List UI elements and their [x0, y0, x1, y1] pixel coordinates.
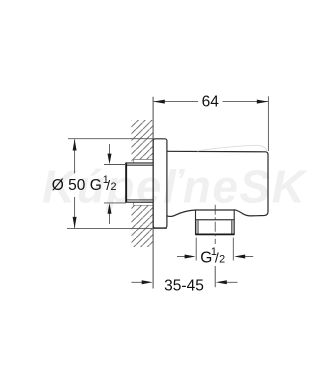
wall pipe-hole outline — [133, 160, 153, 206]
dimension G1/2 (bottom outlet) — [177, 238, 253, 267]
body outline — [167, 151, 268, 216]
centre axis of outlet (dash-dot) — [214, 205, 216, 244]
inlet thread G1/2 (in wall) — [126, 163, 153, 202]
dimension G1/2 (left inlet) — [90, 144, 126, 224]
svg-text:KúpeľneSK: KúpeľneSK — [42, 161, 308, 213]
dimension 35-45 (bottom) — [131, 277, 237, 294]
dimension 64 (top) — [153, 94, 268, 151]
wall face line (also extension line for 64 and 35-45) — [152, 97, 154, 289]
svg-text:35-45: 35-45 — [164, 277, 204, 294]
dimension Ø50 (left) — [52, 139, 167, 229]
svg-text:2: 2 — [219, 253, 225, 265]
faint top-surface edge of body — [197, 145, 267, 151]
wall hatched section — [132, 120, 154, 247]
outlet boss — [196, 210, 235, 220]
outlet thread G1/2 — [196, 220, 235, 235]
svg-text:64: 64 — [202, 94, 220, 111]
escutcheon flange — [153, 139, 167, 228]
